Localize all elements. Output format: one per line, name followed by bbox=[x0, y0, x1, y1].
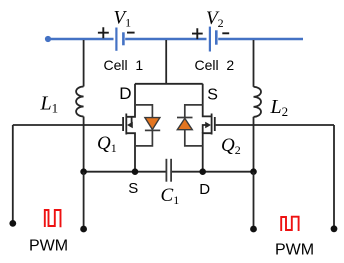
diode D1 (body diode of Q1) bbox=[135, 105, 160, 146]
wire: bottom rail left segment bbox=[84, 171, 166, 173]
Q2 body arrow bbox=[205, 122, 211, 129]
Q2 bottom stub to drain bbox=[203, 133, 212, 172]
svg-text:PWM: PWM bbox=[275, 242, 314, 259]
Q1 bottom stub to source bbox=[126, 133, 135, 172]
svg-text:D: D bbox=[119, 84, 131, 103]
inductor L2 bbox=[254, 40, 262, 172]
node: left PWM terminal bbox=[9, 220, 16, 227]
svg-text:PWM: PWM bbox=[29, 238, 68, 255]
node: L2 stub terminal bbox=[250, 226, 257, 233]
transistor Q2 bbox=[203, 84, 334, 172]
node: junction Q1 source bbox=[132, 168, 139, 175]
node: junction Q2 drain bbox=[199, 168, 206, 175]
wire: bridge top horizontal bbox=[135, 83, 203, 85]
diode D2 (body diode of Q2) bbox=[177, 105, 203, 146]
Q2 gate bar bbox=[214, 117, 216, 131]
node: right PWM terminal bbox=[331, 225, 338, 232]
wire: right PWM drop bbox=[333, 125, 335, 229]
battery V1 plates bbox=[116, 28, 123, 51]
Q2 body tail bbox=[203, 125, 207, 133]
wire: bottom rail right segment bbox=[172, 171, 254, 173]
wire: left PWM drop bbox=[12, 125, 14, 223]
capacitor C1 bbox=[166, 159, 171, 182]
node: junction L1/bottom rail bbox=[80, 168, 87, 175]
node: L1 stub terminal bbox=[80, 226, 87, 233]
PWM pulse icon right bbox=[281, 217, 298, 231]
wire: Q2 gate wire to right bbox=[216, 124, 334, 126]
Q2 top stub to source bbox=[203, 84, 212, 117]
Q1 body arrow bbox=[127, 122, 133, 129]
battery V2 polarity signs bbox=[192, 28, 229, 39]
inductor L1 bbox=[76, 40, 83, 172]
Q1 top stub to drain bbox=[126, 84, 135, 117]
Q1 gate bar bbox=[122, 117, 124, 131]
svg-text:S: S bbox=[128, 180, 138, 197]
Q1 channel bar bbox=[125, 114, 127, 135]
wire: L1 node stub down bbox=[83, 172, 85, 229]
svg-text:D: D bbox=[199, 181, 210, 198]
PWM pulse icon left bbox=[45, 210, 61, 227]
wire: center drop from rail to bridge bbox=[165, 40, 167, 84]
svg-text:Cell 1: Cell 1 bbox=[104, 57, 144, 73]
Q2 channel bar bbox=[211, 114, 213, 135]
node: rail left terminal dot bbox=[45, 36, 51, 42]
svg-text:S: S bbox=[207, 86, 218, 103]
svg-text:Cell 2: Cell 2 bbox=[195, 57, 235, 73]
wire: L2 node stub down bbox=[253, 172, 255, 229]
wire: Q1 gate wire from left bbox=[13, 124, 123, 126]
battery V1 polarity signs bbox=[98, 27, 135, 38]
battery V2 plates bbox=[210, 27, 216, 52]
node: junction L2/bottom rail bbox=[250, 168, 257, 175]
Q1 body elbow bbox=[131, 117, 133, 125]
transistor Q1 bbox=[13, 84, 135, 172]
top rail (blue) bbox=[48, 38, 303, 40]
